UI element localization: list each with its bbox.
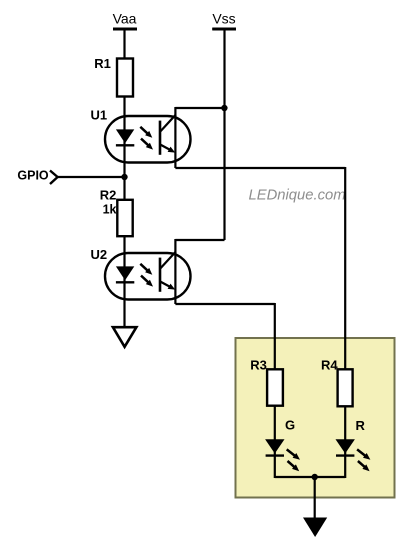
svg-text:R2: R2 (100, 187, 117, 202)
svg-text:U2: U2 (91, 247, 108, 262)
svg-text:R: R (356, 418, 366, 433)
svg-text:GPIO: GPIO (17, 168, 49, 182)
svg-text:R1: R1 (94, 56, 111, 71)
svg-text:R3: R3 (250, 358, 267, 373)
svg-text:Vss: Vss (212, 11, 235, 27)
svg-text:1k: 1k (103, 202, 117, 216)
svg-text:G: G (285, 418, 295, 433)
svg-text:U1: U1 (91, 108, 108, 123)
svg-text:LEDnique.com: LEDnique.com (249, 187, 346, 203)
svg-text:Vaa: Vaa (113, 11, 137, 27)
svg-text:R4: R4 (321, 358, 338, 373)
